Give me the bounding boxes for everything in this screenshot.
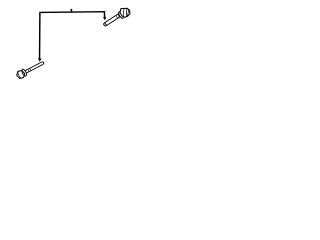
screw B1 (bottom-left hex flange bolt, tip up-right, head seen near end-on) xyxy=(15,59,45,80)
B2 flange washer ellipse xyxy=(118,11,125,19)
screw B2 (top-right hex flange bolt, tip down-left, head seen from side) xyxy=(103,8,130,26)
B2 hex facet lines xyxy=(122,9,125,17)
callout label 1 xyxy=(70,9,72,12)
B1 hex head body xyxy=(15,69,26,80)
B2 shank xyxy=(103,13,122,27)
B2 tip chamfer xyxy=(105,22,107,25)
arrowhead pointing to top-right screw xyxy=(103,17,107,21)
B1 hex far facet arc xyxy=(17,72,21,78)
background xyxy=(0,0,150,90)
B2 hex head body xyxy=(120,8,130,17)
B1 thread lines xyxy=(27,68,31,72)
B2 thread lines xyxy=(116,14,120,18)
arrowhead pointing to bottom-left screw xyxy=(38,58,42,62)
B1 shank xyxy=(25,61,44,73)
B1 flange washer ellipse xyxy=(21,68,28,76)
wire leader line from screw 1 (bottom-left) up and across to screw 2 (top-right) xyxy=(40,12,105,60)
